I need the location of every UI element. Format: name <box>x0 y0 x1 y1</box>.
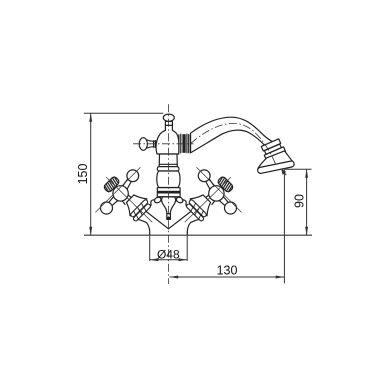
svg-text:Ø48: Ø48 <box>157 247 180 261</box>
svg-text:90: 90 <box>293 194 307 208</box>
svg-text:130: 130 <box>217 264 238 278</box>
svg-text:150: 150 <box>76 164 90 185</box>
